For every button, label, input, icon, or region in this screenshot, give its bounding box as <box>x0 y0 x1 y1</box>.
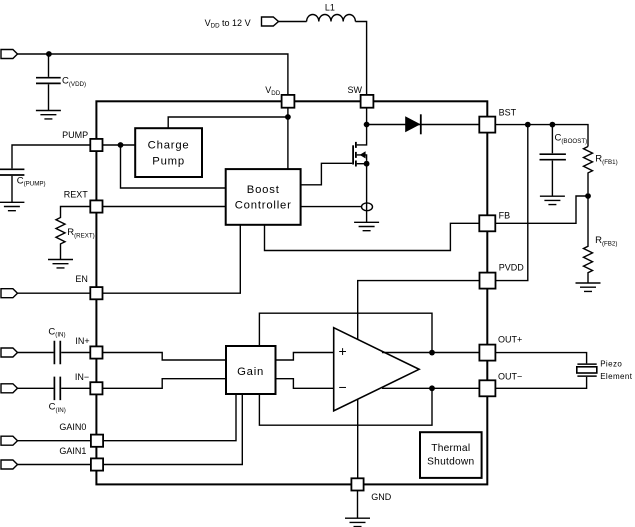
wire EN pin to Boost Controller <box>103 225 241 293</box>
current sense bubble <box>362 203 373 211</box>
wire REXT pin to Boost Controller <box>103 206 226 208</box>
piezo element <box>577 364 597 376</box>
terminal GAIN1 input <box>1 460 18 469</box>
wire PVDD pin to amplifier supply <box>358 281 480 340</box>
inductor L1 <box>307 14 356 21</box>
wire diode anode line SW to BST <box>367 124 480 126</box>
svg-text:GAIN1: GAIN1 <box>59 446 86 456</box>
terminal IN- input <box>1 384 18 393</box>
resistor R(FB1) <box>584 147 593 194</box>
resistor R(FB2) <box>584 196 593 283</box>
node FB divider junction <box>585 193 591 199</box>
transistor Q1 boost FET <box>353 142 367 167</box>
svg-text:GAIN0: GAIN0 <box>59 422 86 432</box>
svg-text:REXT: REXT <box>64 190 89 200</box>
ground under R(REXT) <box>48 260 73 268</box>
wire VDD input rail to VDD pin <box>18 54 288 95</box>
wire Boost FB input from FB pin <box>265 223 480 250</box>
wire L1 to SW pin <box>355 22 366 95</box>
op-amp U1 output stage <box>334 328 419 411</box>
pin PUMP <box>90 139 102 151</box>
wire Gain to amp - input <box>276 379 334 389</box>
pin OUT+ <box>479 345 495 361</box>
wire Boost current sense to source bubble <box>301 206 362 208</box>
wire amp to OUT+ pin <box>382 352 480 354</box>
pin FB <box>479 215 495 231</box>
resistor R(REXT) <box>56 207 90 260</box>
wire IN- pin to Gain <box>103 379 226 389</box>
wire GAIN0 terminal to pin <box>18 440 91 442</box>
charge pump block <box>135 128 202 177</box>
pin REXT <box>90 200 102 212</box>
wire BST pin to feedback divider <box>495 125 588 147</box>
capacitor C(PUMP) <box>0 145 90 202</box>
wire BST to PVDD pin <box>496 125 528 281</box>
svg-text:GND: GND <box>371 492 392 502</box>
pin PVDD <box>480 273 496 289</box>
svg-text:IN−: IN− <box>75 372 89 382</box>
svg-text:Pump: Pump <box>152 156 185 168</box>
gain block <box>226 346 276 394</box>
svg-text:Element: Element <box>600 372 633 381</box>
terminal VDD supply input (top-left) <box>1 50 18 59</box>
wire GAIN1 pin to Gain block <box>103 394 242 465</box>
wire OUT+ pin to piezo <box>495 353 586 364</box>
svg-text:+: + <box>339 343 347 359</box>
node SW diode junction <box>364 122 370 128</box>
svg-text:IN+: IN+ <box>75 336 89 346</box>
ground under MOSFET source <box>354 222 379 230</box>
capacitor C(IN) plus <box>18 341 91 365</box>
wire GAIN0 pin to Gain block <box>103 394 236 441</box>
svg-text:L1: L1 <box>325 3 335 13</box>
pin IN- <box>90 382 102 394</box>
terminal EN input <box>1 289 18 298</box>
wire SW pin to MOSFET drain <box>357 108 367 145</box>
wire EN terminal to pin <box>18 292 91 294</box>
terminal VDD to 12 V <box>262 17 279 26</box>
svg-text:SW: SW <box>348 85 363 95</box>
wire OUT+ feedback to Gain top <box>259 313 432 352</box>
svg-text:−: − <box>339 379 347 395</box>
wire amp to OUT- pin <box>382 387 480 389</box>
capacitor C(BOOST) <box>540 125 566 197</box>
svg-text:Thermal: Thermal <box>431 443 470 454</box>
svg-text:Shutdown: Shutdown <box>427 457 474 468</box>
wire MOSFET source to ground <box>366 164 368 223</box>
wire PUMP junction to Boost Controller <box>121 145 226 188</box>
svg-text:OUT+: OUT+ <box>498 335 522 345</box>
svg-text:Piezo: Piezo <box>600 359 622 368</box>
svg-text:Boost: Boost <box>247 184 280 196</box>
wire PUMP pin to Charge Pump <box>103 144 136 146</box>
wire VDD junction to Charge Pump <box>168 117 288 128</box>
wire FB pin to divider junction <box>495 196 588 223</box>
ground under C(BOOST) <box>540 196 565 204</box>
ground under C(VDD) <box>36 111 61 119</box>
pin EN <box>90 287 102 299</box>
diode D1 <box>405 114 421 134</box>
wire OUT- pin to piezo <box>495 377 586 388</box>
pin IN+ <box>90 346 102 358</box>
pin SW <box>361 95 374 108</box>
svg-text:PVDD: PVDD <box>499 262 525 272</box>
capacitor C(IN) minus <box>18 377 91 401</box>
node MOSFET source junction <box>364 161 370 167</box>
wire Boost gate drive to MOSFET gate <box>301 163 353 185</box>
wire terminal to L1 <box>279 21 307 23</box>
wire amplifier ground to GND pin <box>357 399 359 478</box>
pin OUT- <box>479 380 495 396</box>
ground under R(FB2) <box>576 283 601 291</box>
wire GND pin to ground <box>357 490 359 518</box>
capacitor C(VDD) <box>36 54 61 111</box>
thermal shutdown block <box>420 432 482 478</box>
svg-text:EN: EN <box>75 274 88 284</box>
ground under GND pin <box>345 518 370 526</box>
svg-text:Charge: Charge <box>148 139 190 151</box>
boost controller block <box>226 169 301 225</box>
terminal GAIN0 input <box>1 436 18 445</box>
pin GAIN1 <box>91 458 103 470</box>
wire OUT- feedback to Gain bottom <box>259 388 432 425</box>
svg-text:OUT−: OUT− <box>498 372 522 382</box>
svg-text:BST: BST <box>499 107 517 117</box>
node VDD input junction <box>46 51 52 57</box>
pin BST <box>479 117 495 133</box>
wire GAIN1 terminal to pin <box>18 464 91 466</box>
ground under C(PUMP) <box>0 202 24 210</box>
terminal IN+ input <box>1 348 18 357</box>
svg-text:FB: FB <box>499 210 511 220</box>
IC boundary box <box>96 101 487 484</box>
wire VDD pin to Boost Controller <box>287 108 289 169</box>
pin VDD <box>282 95 295 108</box>
node OUT+ feedback junction <box>429 350 435 356</box>
svg-text:Controller: Controller <box>235 199 292 211</box>
pin GAIN0 <box>91 435 103 447</box>
node VDD internal junction <box>285 114 291 120</box>
svg-text:Gain: Gain <box>237 366 264 378</box>
svg-text:PUMP: PUMP <box>62 130 88 140</box>
wire Gain to amp + input <box>276 353 334 361</box>
wire IN+ pin to Gain <box>103 353 226 361</box>
pin GND <box>351 478 363 490</box>
node PUMP junction <box>118 142 124 148</box>
node BST CBOOST junction <box>550 122 556 128</box>
node OUT- feedback junction <box>429 385 435 391</box>
node BST PVDD junction <box>525 122 531 128</box>
